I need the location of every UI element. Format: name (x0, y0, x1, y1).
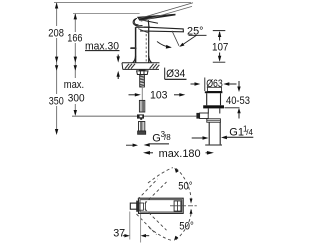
svg-text:107: 107 (212, 41, 228, 53)
svg-text:G1: G1 (229, 127, 244, 139)
svg-text:50°: 50° (178, 180, 192, 192)
svg-text:166: 166 (67, 32, 82, 44)
svg-text:350: 350 (49, 96, 64, 108)
svg-text:208: 208 (48, 27, 64, 39)
svg-text:300: 300 (68, 92, 85, 104)
svg-text:40-53: 40-53 (226, 95, 250, 107)
svg-text:max.180: max.180 (159, 148, 201, 160)
svg-text:50°: 50° (179, 220, 194, 232)
svg-text:37: 37 (113, 227, 125, 239)
svg-text:/4: /4 (246, 128, 253, 137)
svg-text:Ø34: Ø34 (166, 68, 185, 80)
svg-text:G: G (152, 133, 161, 145)
svg-text:103: 103 (150, 89, 168, 101)
svg-text:Ø63: Ø63 (206, 78, 223, 90)
svg-text:/8: /8 (164, 133, 171, 142)
svg-text:max.: max. (64, 79, 84, 91)
